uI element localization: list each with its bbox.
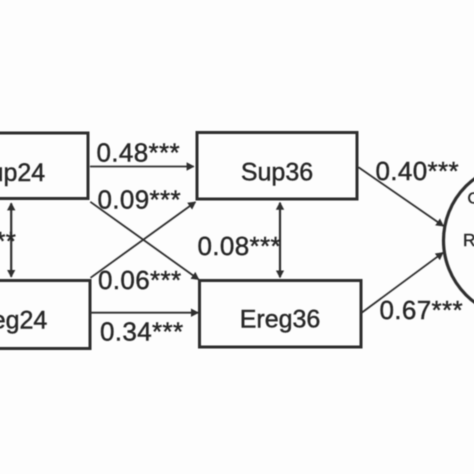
box Sup24 bbox=[0, 133, 88, 199]
svg-text:0.34***: 0.34*** bbox=[100, 316, 183, 346]
double arrow Sup36 and Ereg36 covariance bbox=[279, 203, 281, 277]
svg-text:0.06***: 0.06*** bbox=[98, 265, 181, 295]
arrow Ereg36 to latent bbox=[362, 253, 443, 313]
double arrow Sup24 and Ereg24 covariance (cropped label) bbox=[10, 203, 12, 276]
arrow Sup36 to latent bbox=[359, 167, 444, 226]
arrow Sup24 to Sup36 bbox=[90, 166, 194, 168]
svg-text:0.08***: 0.08*** bbox=[198, 231, 281, 261]
arrow Ereg24 to Ereg36 bbox=[90, 312, 198, 314]
svg-text:0.09***: 0.09*** bbox=[98, 185, 181, 215]
svg-text:0.40***: 0.40*** bbox=[376, 156, 459, 186]
svg-text:0.48***: 0.48*** bbox=[97, 137, 180, 167]
svg-text:0.45***: 0.45*** bbox=[0, 226, 16, 256]
arrow Sup24 to Ereg36 (cross-lagged) bbox=[90, 202, 198, 280]
svg-text:Ereg24: Ereg24 bbox=[0, 307, 47, 335]
svg-text:0.67***: 0.67*** bbox=[380, 295, 463, 325]
box Sup36 bbox=[197, 133, 357, 200]
svg-text:Readiness: Readiness bbox=[463, 230, 474, 250]
svg-text:Ereg36: Ereg36 bbox=[240, 306, 321, 334]
ellipse latent variable (cropped at right edge) bbox=[444, 164, 474, 318]
box Ereg24 bbox=[0, 281, 90, 349]
box Ereg36 bbox=[200, 281, 362, 348]
svg-text:Sup24: Sup24 bbox=[0, 159, 45, 187]
svg-text:Cognitive: Cognitive bbox=[468, 191, 474, 208]
arrow Ereg24 to Sup36 (cross-lagged) bbox=[91, 202, 196, 278]
svg-text:Sup36: Sup36 bbox=[241, 159, 313, 187]
